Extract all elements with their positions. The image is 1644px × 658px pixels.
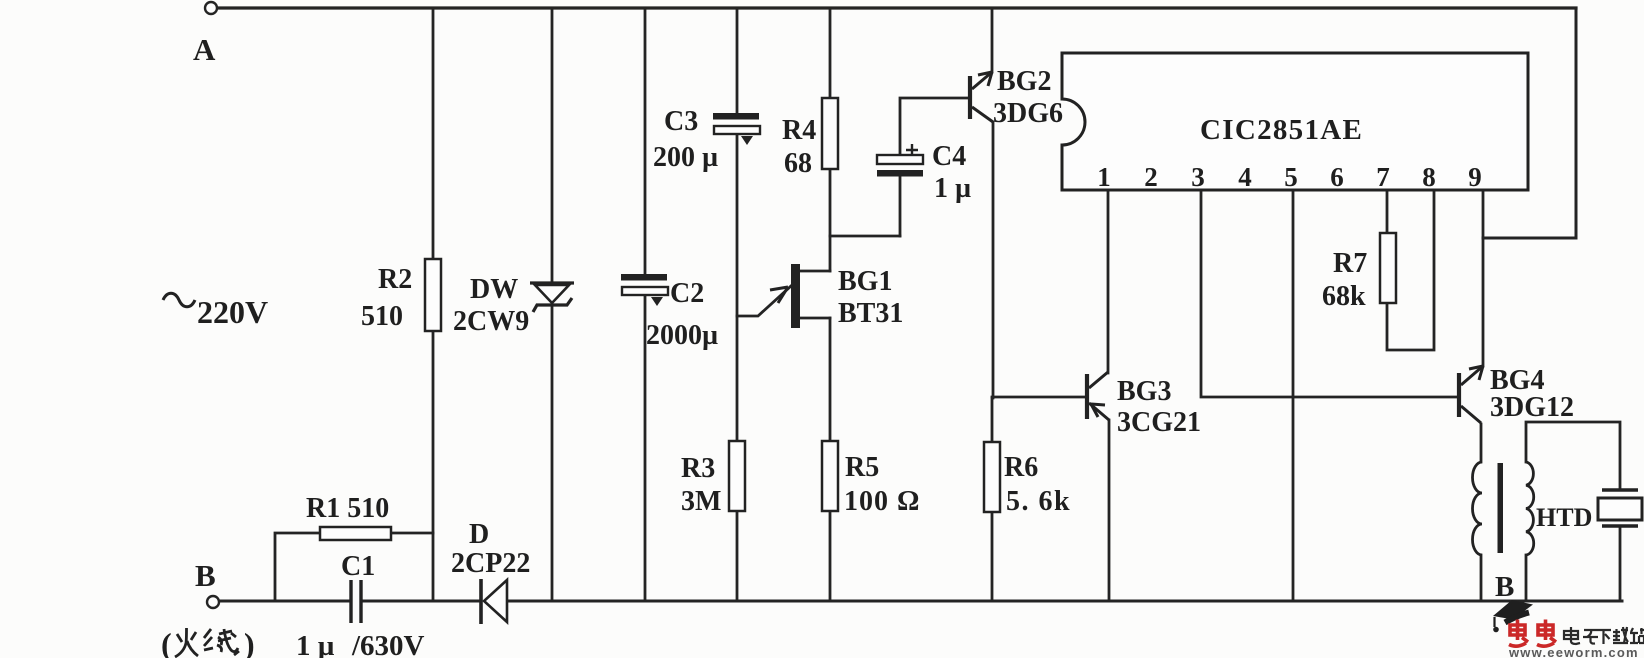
svg-text:D: D (469, 519, 489, 550)
svg-text:4: 4 (1238, 162, 1252, 192)
transistor BG1 emitter arrow (770, 287, 788, 303)
svg-text:7: 7 (1376, 162, 1390, 192)
svg-text:1 µ: 1 µ (296, 630, 335, 658)
wire bottom rail segment C1 to D (362, 600, 481, 603)
IC U1 CIC2851AE outline (1062, 53, 1528, 190)
svg-text:2000µ: 2000µ (646, 320, 718, 351)
svg-text:100 Ω: 100 Ω (844, 486, 920, 517)
wire BG1 bottom lead to R5 (829, 318, 832, 441)
wire transformer secondary bottom (1525, 555, 1528, 601)
svg-text:(: ( (161, 626, 172, 658)
zener DW 2CW9 (530, 281, 574, 284)
svg-text:220V: 220V (197, 294, 268, 330)
svg-text:R3: R3 (681, 453, 715, 484)
wire BG1 emitter (737, 286, 791, 316)
wire C4 bottom (899, 176, 902, 236)
piezo HTD element (1602, 488, 1638, 491)
watermark graduation cap (1493, 600, 1533, 620)
svg-text:/630V: /630V (351, 630, 425, 658)
svg-text:R2: R2 (378, 264, 412, 295)
svg-text:R1 510: R1 510 (306, 493, 389, 524)
wire R3 column lower (736, 511, 739, 601)
svg-text:BT31: BT31 (838, 298, 903, 329)
svg-text:3DG6: 3DG6 (993, 98, 1063, 129)
wire right loop from rail to pin 9 (1483, 8, 1576, 238)
wire R2 column lower (432, 331, 435, 601)
wire C2 column upper (644, 8, 647, 275)
svg-text:C1: C1 (341, 551, 375, 582)
wire C2 column lower (644, 295, 647, 601)
svg-text:A: A (193, 32, 216, 67)
svg-text:200 µ: 200 µ (653, 142, 718, 173)
wire R5 column lower (829, 511, 832, 601)
resistor R2 (425, 259, 441, 331)
resistor R3 (729, 441, 745, 511)
wire C3 column upper (736, 8, 739, 114)
wire BG3 base (992, 396, 1086, 399)
wire transformer secondary top (1526, 422, 1620, 490)
transistor BG1 bar (791, 264, 800, 328)
wire DW column lower (551, 303, 554, 601)
wire bottom rail segment B to C1 (220, 600, 350, 603)
svg-text:B: B (195, 558, 216, 593)
wire R1 left leg (275, 533, 320, 601)
wire C4 top to BG2 base (900, 98, 967, 156)
watermark site name characters (1564, 627, 1644, 644)
svg-text:1: 1 (1097, 162, 1111, 192)
svg-text:BG3: BG3 (1117, 376, 1171, 407)
svg-text:68k: 68k (1322, 281, 1366, 312)
wire BG3 emitter column (1108, 420, 1111, 601)
wire BG1 top lead (800, 270, 830, 273)
wire pin 7 column (1386, 190, 1389, 233)
capacitor C4 (877, 155, 923, 164)
terminal B (207, 596, 219, 608)
svg-text:HTD: HTD (1536, 503, 1592, 532)
svg-text:): ) (244, 626, 255, 658)
svg-text:www.eeworm.com: www.eeworm.com (1508, 645, 1639, 658)
wire R4 column upper (829, 8, 832, 98)
svg-text:1 µ: 1 µ (934, 173, 971, 204)
resistor R1 (320, 527, 391, 540)
watermark chongchong red characters (1509, 620, 1556, 647)
transistor BG3 (1085, 374, 1089, 419)
svg-text:BG2: BG2 (997, 66, 1051, 97)
svg-text:C2: C2 (670, 278, 704, 309)
wire piezo bottom (1619, 526, 1622, 601)
wire bottom rail segment D to right (507, 600, 1622, 603)
wire BG1 bottom lead (800, 317, 830, 320)
wire pin 5 column (1292, 190, 1295, 601)
wire transformer primary bottom (1480, 555, 1483, 601)
transformer secondary winding (1526, 462, 1534, 555)
resistor R5 (822, 441, 838, 511)
svg-text:510: 510 (361, 301, 403, 332)
resistor R4 (822, 98, 838, 169)
svg-text:8: 8 (1422, 162, 1436, 192)
svg-text:3CG21: 3CG21 (1117, 407, 1201, 438)
svg-text:6: 6 (1330, 162, 1344, 192)
svg-text:R5: R5 (845, 452, 879, 483)
svg-text:2: 2 (1144, 162, 1158, 192)
label ~220V (163, 293, 195, 307)
wire R4 to BG1 top lead (829, 169, 832, 271)
svg-text:3: 3 (1191, 162, 1205, 192)
svg-text:R7: R7 (1333, 248, 1367, 279)
wire R6 column lower (991, 512, 994, 601)
wire top rail A (218, 6, 1576, 9)
svg-text:2CP22: 2CP22 (451, 548, 530, 579)
svg-text:DW: DW (470, 274, 518, 305)
svg-text:BG1: BG1 (838, 266, 892, 297)
svg-text:5. 6k: 5. 6k (1006, 486, 1071, 517)
svg-text:5: 5 (1284, 162, 1298, 192)
diode D 2CP22 (479, 579, 483, 624)
transistor BG2 (968, 76, 972, 119)
svg-text:68: 68 (784, 148, 812, 179)
capacitor C2 (621, 274, 667, 281)
transformer core (1498, 463, 1504, 553)
wire BG2 collector column (991, 8, 994, 72)
wire R4-C4 branch (830, 235, 900, 238)
svg-text:C4: C4 (932, 141, 966, 172)
transistor BG4 (1457, 373, 1461, 417)
svg-text:3DG12: 3DG12 (1490, 392, 1574, 423)
wire BG2 emitter column (992, 122, 995, 398)
terminal A (205, 2, 217, 14)
svg-text:3M: 3M (681, 486, 721, 517)
wire DW column upper (551, 8, 554, 283)
resistor R6 (984, 442, 1000, 512)
wire R6 column upper (991, 398, 994, 442)
svg-text:CIC2851AE: CIC2851AE (1200, 114, 1363, 146)
svg-text:C3: C3 (664, 106, 698, 137)
wire pin 9 column (1482, 190, 1485, 366)
resistor R7 (1380, 233, 1396, 303)
wire R1 right leg (391, 532, 433, 535)
svg-text:R6: R6 (1004, 452, 1038, 483)
wire pin 1 column (1107, 190, 1110, 373)
wire C3 column middle (736, 133, 739, 441)
svg-text:R4: R4 (782, 115, 816, 146)
svg-text:B: B (1495, 571, 1514, 603)
wire R7 loop to pin 8 (1387, 190, 1434, 350)
svg-text:2CW9: 2CW9 (453, 306, 529, 337)
wire BG4 emitter column (1480, 424, 1483, 462)
capacitor C1 (351, 580, 361, 623)
wire pin 3 column and BG4 base (1201, 190, 1458, 397)
capacitor C3 (713, 113, 759, 120)
transformer T primary winding (1473, 462, 1483, 555)
wire R2 column upper (432, 8, 435, 259)
svg-text:9: 9 (1468, 162, 1482, 192)
